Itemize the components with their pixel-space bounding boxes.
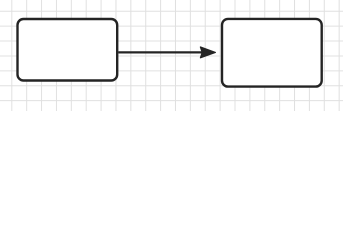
wire arrow shaft (118, 51, 202, 53)
grid background (0, 0, 343, 111)
node box left (18, 19, 118, 81)
node box right (222, 19, 322, 87)
wire arrowhead (200, 47, 215, 58)
